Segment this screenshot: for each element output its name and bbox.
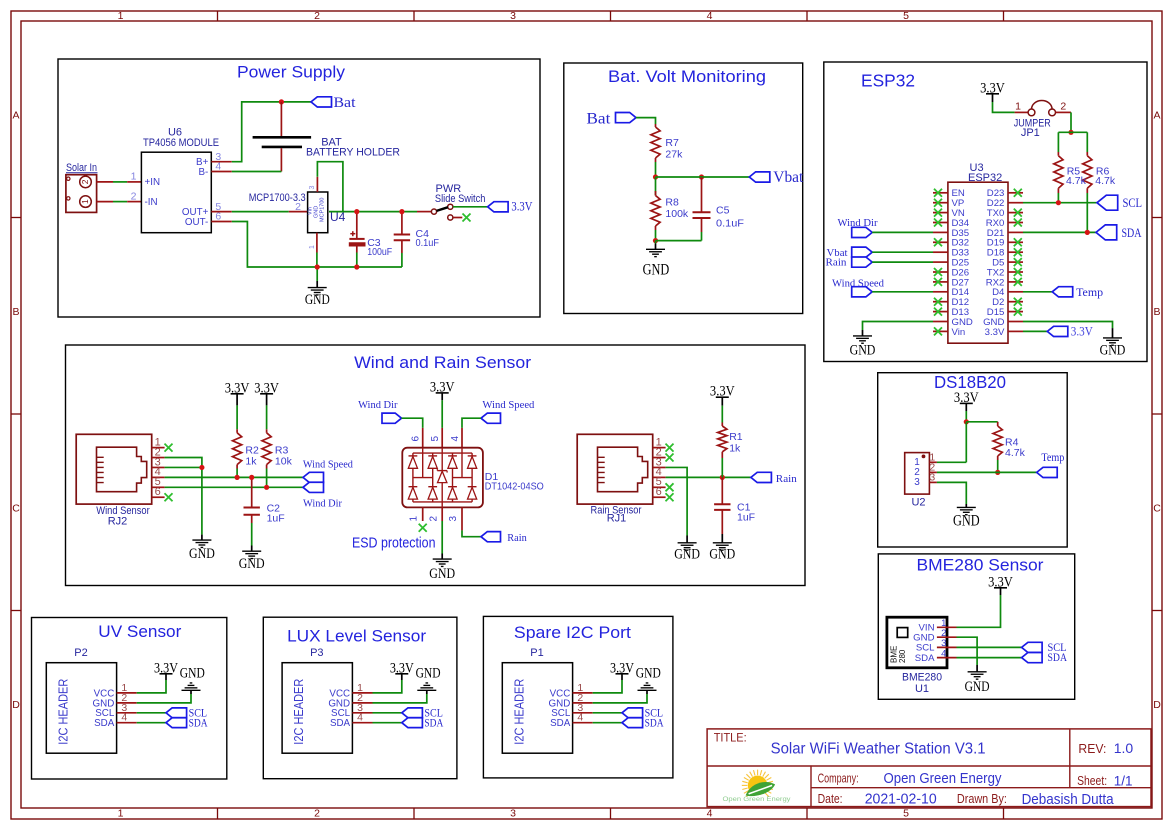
svg-text:Solar In: Solar In — [66, 162, 97, 174]
svg-text:3: 3 — [914, 477, 920, 488]
svg-text:ESP32: ESP32 — [968, 172, 1002, 184]
svg-text:5: 5 — [903, 10, 909, 22]
svg-text:2: 2 — [1060, 101, 1066, 113]
svg-text:R7: R7 — [665, 137, 679, 149]
svg-text:4.7k: 4.7k — [1066, 175, 1087, 187]
svg-text:Bat. Volt Monitoring: Bat. Volt Monitoring — [608, 67, 766, 86]
svg-text:2: 2 — [80, 179, 90, 184]
svg-text:1: 1 — [409, 516, 420, 522]
svg-text:Slide Switch: Slide Switch — [435, 193, 486, 205]
svg-text:Company:: Company: — [818, 771, 859, 785]
svg-text:LUX Level Sensor: LUX Level Sensor — [287, 626, 426, 645]
svg-text:B: B — [12, 306, 19, 318]
svg-text:Solar WiFi Weather Station V3.: Solar WiFi Weather Station V3.1 — [771, 740, 986, 757]
svg-text:4: 4 — [357, 712, 363, 724]
svg-text:GND: GND — [239, 556, 265, 572]
svg-text:4: 4 — [707, 808, 713, 820]
svg-text:BATTERY HOLDER: BATTERY HOLDER — [306, 147, 400, 159]
svg-text:6: 6 — [656, 486, 662, 498]
svg-text:2: 2 — [131, 190, 137, 202]
svg-text:3.3V: 3.3V — [1071, 325, 1093, 339]
svg-text:ESP32: ESP32 — [861, 71, 915, 91]
svg-text:GND: GND — [953, 513, 980, 530]
svg-text:A: A — [1153, 110, 1160, 122]
svg-text:I2C HEADER: I2C HEADER — [512, 679, 526, 745]
svg-text:D: D — [1153, 699, 1161, 711]
svg-text:SDA: SDA — [1122, 226, 1142, 240]
svg-text:1uF: 1uF — [737, 512, 755, 524]
svg-text:GND: GND — [850, 343, 876, 359]
svg-text:C5: C5 — [716, 205, 730, 217]
svg-text:D: D — [12, 699, 20, 711]
svg-text:Bat: Bat — [334, 95, 357, 111]
svg-text:3: 3 — [510, 10, 516, 22]
svg-text:Rain: Rain — [776, 473, 797, 485]
svg-text:6: 6 — [411, 436, 422, 442]
svg-text:100k: 100k — [665, 208, 689, 220]
svg-text:4: 4 — [577, 712, 583, 724]
svg-text:+IN: +IN — [145, 177, 161, 188]
svg-text:GND: GND — [709, 546, 735, 562]
svg-text:Wind Speed: Wind Speed — [303, 459, 353, 471]
svg-text:P3: P3 — [310, 647, 323, 659]
svg-text:1k: 1k — [729, 443, 741, 455]
svg-text:DT1042-04SO: DT1042-04SO — [485, 481, 544, 493]
svg-text:Spare I2C Port: Spare I2C Port — [514, 623, 631, 642]
svg-text:GND: GND — [674, 546, 700, 562]
svg-text:Drawn By:: Drawn By: — [957, 792, 1007, 806]
svg-text:P1: P1 — [530, 647, 543, 659]
svg-text:6: 6 — [155, 486, 161, 498]
svg-text:1: 1 — [309, 245, 316, 249]
svg-text:GND: GND — [189, 546, 215, 562]
svg-text:4: 4 — [707, 10, 713, 22]
svg-text:B-: B- — [199, 167, 209, 178]
svg-text:SDA: SDA — [645, 717, 665, 729]
svg-text:GND: GND — [180, 666, 205, 682]
svg-text:MCP1700-3.3: MCP1700-3.3 — [249, 192, 306, 204]
svg-text:U1: U1 — [915, 683, 929, 695]
svg-text:Vbat: Vbat — [773, 169, 804, 186]
svg-text:SDA: SDA — [1048, 650, 1068, 664]
svg-text:TP4056 MODULE: TP4056 MODULE — [143, 137, 219, 149]
svg-text:0.1uF: 0.1uF — [716, 218, 744, 230]
svg-text:Power Supply: Power Supply — [237, 63, 346, 82]
svg-text:SCL: SCL — [1123, 196, 1143, 210]
svg-text:Wind Speed: Wind Speed — [482, 399, 534, 411]
svg-text:2021-02-10: 2021-02-10 — [865, 792, 937, 808]
svg-text:GND: GND — [965, 679, 990, 695]
svg-text:R8: R8 — [665, 197, 679, 209]
svg-text:RJ1: RJ1 — [607, 513, 627, 525]
svg-text:3: 3 — [448, 516, 459, 522]
svg-text:I2C HEADER: I2C HEADER — [56, 679, 70, 745]
svg-text:GND: GND — [1100, 343, 1126, 359]
svg-text:GND: GND — [416, 666, 441, 682]
svg-text:10k: 10k — [275, 456, 293, 468]
svg-text:Date:: Date: — [818, 792, 843, 806]
svg-text:B: B — [1153, 306, 1160, 318]
svg-text:Sheet:: Sheet: — [1077, 774, 1107, 788]
svg-text:SDA: SDA — [330, 718, 351, 729]
svg-text:Temp: Temp — [1041, 450, 1064, 464]
svg-text:4.7k: 4.7k — [1005, 447, 1026, 459]
svg-text:C: C — [12, 503, 20, 515]
svg-text:Wind Dir: Wind Dir — [303, 497, 342, 509]
svg-text:2: 2 — [428, 516, 439, 522]
svg-text:280: 280 — [898, 649, 907, 663]
svg-text:Open Green Energy: Open Green Energy — [723, 796, 792, 803]
svg-text:1: 1 — [118, 808, 124, 820]
svg-text:2: 2 — [314, 808, 320, 820]
svg-text:1.0: 1.0 — [1114, 740, 1134, 756]
svg-text:SDA: SDA — [915, 653, 935, 664]
svg-text:BME280: BME280 — [902, 672, 942, 684]
svg-text:SDA: SDA — [189, 717, 209, 729]
svg-text:I2C HEADER: I2C HEADER — [292, 679, 306, 745]
svg-text:REV:: REV: — [1078, 742, 1106, 756]
svg-text:JP1: JP1 — [1021, 127, 1040, 139]
svg-text:4: 4 — [941, 648, 946, 659]
svg-text:GND: GND — [429, 566, 455, 582]
svg-text:Temp: Temp — [1076, 285, 1103, 299]
svg-text:Rain: Rain — [826, 257, 847, 269]
svg-text:5: 5 — [903, 808, 909, 820]
svg-text:4: 4 — [450, 436, 461, 442]
svg-text:GND: GND — [305, 292, 330, 308]
svg-text:SDA: SDA — [94, 718, 115, 729]
svg-text:OUT-: OUT- — [185, 217, 208, 228]
svg-text:1/1: 1/1 — [1114, 774, 1133, 789]
svg-text:ESD protection: ESD protection — [352, 535, 436, 552]
svg-text:Rain: Rain — [507, 532, 527, 544]
svg-text:R1: R1 — [729, 431, 743, 443]
svg-text:1uF: 1uF — [267, 513, 285, 525]
svg-text:SDA: SDA — [424, 717, 444, 729]
svg-text:3: 3 — [510, 808, 516, 820]
svg-text:1: 1 — [80, 199, 90, 204]
svg-text:100uF: 100uF — [367, 246, 392, 258]
svg-text:UV Sensor: UV Sensor — [98, 622, 181, 641]
svg-text:Bat: Bat — [586, 110, 611, 127]
svg-text:3.3V: 3.3V — [511, 200, 532, 214]
svg-text:SDA: SDA — [550, 718, 571, 729]
svg-text:3: 3 — [309, 186, 316, 190]
svg-text:Wind and Rain Sensor: Wind and Rain Sensor — [354, 353, 531, 372]
svg-text:TITLE:: TITLE: — [714, 732, 747, 744]
svg-text:MCP1700: MCP1700 — [320, 198, 326, 222]
svg-text:Wind Dir: Wind Dir — [358, 399, 398, 411]
svg-text:1: 1 — [131, 171, 137, 183]
svg-text:1: 1 — [118, 10, 124, 22]
svg-text:3: 3 — [929, 471, 935, 483]
svg-text:P2: P2 — [74, 647, 87, 659]
svg-text:1: 1 — [1015, 101, 1021, 113]
svg-text:Open Green Energy: Open Green Energy — [884, 771, 1003, 787]
svg-text:0.1uF: 0.1uF — [416, 237, 440, 249]
svg-text:1k: 1k — [245, 456, 257, 468]
svg-text:RJ2: RJ2 — [108, 515, 128, 527]
svg-text:27k: 27k — [665, 149, 683, 161]
svg-text:A: A — [12, 110, 19, 122]
svg-text:5: 5 — [430, 436, 441, 442]
svg-text:GND: GND — [636, 666, 661, 682]
svg-text:-IN: -IN — [145, 197, 158, 208]
svg-text:3.3V: 3.3V — [985, 327, 1005, 338]
svg-text:C: C — [1153, 503, 1161, 515]
svg-text:Vin: Vin — [952, 327, 966, 338]
svg-text:BME280 Sensor: BME280 Sensor — [917, 555, 1044, 574]
svg-text:4: 4 — [121, 712, 127, 724]
svg-text:2: 2 — [314, 10, 320, 22]
svg-text:GND: GND — [643, 262, 670, 279]
svg-text:4.7k: 4.7k — [1095, 175, 1116, 187]
svg-text:Debasish Dutta: Debasish Dutta — [1022, 792, 1115, 808]
svg-text:U2: U2 — [911, 497, 925, 509]
